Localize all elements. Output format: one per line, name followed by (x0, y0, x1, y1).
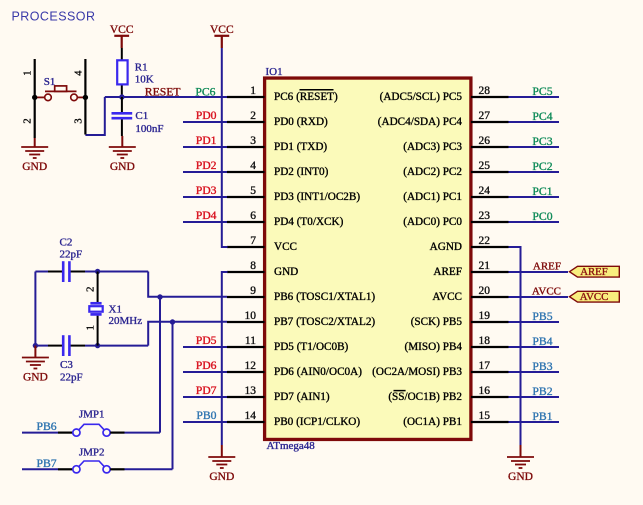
svg-text:PB6 (TOSC1/XTAL1): PB6 (TOSC1/XTAL1) (274, 291, 375, 303)
IC IO1 ATmega48 body (265, 78, 471, 439)
svg-text:3: 3 (73, 118, 84, 123)
net label PB0 (196, 409, 216, 422)
switch S1 pin number 2 (22, 118, 33, 123)
svg-text:1: 1 (22, 70, 33, 75)
IO1 pin 28 (ADC5/SCL) PC5 (380, 85, 509, 103)
capacitor C3 (63, 335, 69, 356)
svg-text:20MHz: 20MHz (109, 315, 143, 327)
wire JMP1 vertical (159, 297, 161, 433)
svg-text:1: 1 (85, 325, 97, 331)
IO1 pin 18 (MISO) PB4 (405, 335, 509, 353)
svg-text:14: 14 (245, 410, 257, 422)
IO1 pin 3 PD1 (TXD) (227, 135, 327, 153)
svg-text:PB6: PB6 (37, 420, 57, 433)
svg-text:PC6: PC6 (195, 86, 215, 99)
ground below C1 (109, 136, 136, 173)
svg-text:(ADC4/SDA) PC4: (ADC4/SDA) PC4 (378, 116, 463, 128)
wire net PC3 (509, 146, 560, 148)
net label AVCC (532, 286, 561, 298)
ground below AGND (507, 445, 534, 483)
svg-text:PC2: PC2 (532, 160, 552, 173)
capacitor C3 label (60, 359, 83, 384)
net label PD2 (196, 159, 217, 172)
crystal X1 pin number 2 (84, 287, 96, 293)
svg-text:(ADC0) PC0: (ADC0) PC0 (403, 216, 462, 228)
svg-text:21: 21 (479, 260, 491, 272)
IO1 pin 7 VCC (227, 235, 297, 253)
net label PB4 (532, 335, 552, 348)
svg-text:PROCESSOR: PROCESSOR (12, 10, 96, 24)
IO1 pin 25 (ADC2) PC2 (403, 160, 508, 178)
svg-text:16: 16 (479, 385, 491, 397)
svg-text:PB7 (TOSC2/XTAL2): PB7 (TOSC2/XTAL2) (274, 316, 375, 328)
power flag terminal AVCC (570, 291, 620, 303)
node junction left rail / ground (33, 343, 38, 348)
wire net AVCC (509, 296, 569, 298)
wire net PB4 (509, 346, 560, 348)
svg-text:GND: GND (23, 372, 48, 384)
node junction R1/C1 on RESET net (119, 94, 124, 99)
net label PB3 (532, 360, 552, 373)
svg-text:C3: C3 (60, 359, 73, 371)
svg-text:12: 12 (245, 360, 257, 372)
net label RESET (145, 86, 181, 99)
svg-text:(ADC1) PC1: (ADC1) PC1 (403, 191, 462, 203)
wire net PD6 (183, 371, 227, 373)
IO1 pin 21 AREF (433, 260, 508, 278)
svg-text:PC1: PC1 (532, 185, 552, 198)
IO1 pin 15 (OC1A) PB1 (403, 410, 508, 428)
IO1 pin 12 PD6 (AIN0/OC0A) (227, 360, 362, 378)
svg-text:AVCC: AVCC (432, 291, 462, 303)
net label PD5 (196, 334, 217, 347)
svg-text:PD3: PD3 (196, 184, 217, 197)
IO1 pin 11 PD5 (T1/OC0B) (227, 335, 349, 353)
node junction pin 9 / JMP1 (157, 294, 162, 299)
svg-text:18: 18 (479, 335, 491, 347)
jumper JMP2 label (79, 447, 105, 459)
svg-text:PC4: PC4 (532, 110, 552, 123)
capacitor C1 label (135, 110, 163, 135)
svg-text:PD7 (AIN1): PD7 (AIN1) (274, 391, 330, 403)
IO1 pin 1 PC6 (RESET) (227, 85, 338, 103)
svg-text:11: 11 (245, 335, 256, 347)
svg-text:GND: GND (22, 161, 47, 173)
IO1 pin 26 (ADC3) PC3 (403, 135, 508, 153)
wire net PD0 (183, 121, 227, 123)
node junction crystal bottom (95, 343, 100, 348)
svg-text:10: 10 (245, 310, 257, 322)
net label PC4 (532, 110, 552, 123)
svg-text:PC6 (RESET): PC6 (RESET) (274, 91, 338, 103)
svg-text:8: 8 (250, 260, 256, 272)
svg-text:PB1: PB1 (532, 410, 552, 423)
svg-text:19: 19 (479, 310, 491, 322)
power flag terminal AREF (570, 266, 620, 278)
jumper JMP2 (73, 461, 110, 473)
svg-text:28: 28 (479, 85, 491, 97)
net label PC0 (532, 210, 552, 223)
resistor R1 label (135, 61, 154, 85)
net label PD4 (196, 209, 217, 222)
svg-text:PB7: PB7 (37, 457, 57, 470)
net label PB7 (37, 457, 57, 470)
svg-text:26: 26 (479, 135, 491, 147)
ground below IO1 (pin 8 net) (208, 445, 235, 483)
net label AREF (533, 261, 561, 273)
IO1 pin 2 PD0 (RXD) (227, 110, 328, 128)
svg-text:PD2 (INT0): PD2 (INT0) (274, 166, 329, 178)
svg-text:17: 17 (479, 360, 491, 372)
IO1 pin 4 PD2 (INT0) (227, 160, 329, 178)
IO1 pin 24 (ADC1) PC1 (403, 185, 508, 203)
wire net PB3 (509, 371, 560, 373)
svg-text:AREF: AREF (433, 266, 462, 278)
IO1 pin 10 PB7 (TOSC2/XTAL2) (227, 310, 375, 328)
svg-text:AVCC: AVCC (532, 286, 561, 298)
svg-text:ATmega48: ATmega48 (267, 440, 316, 452)
svg-text:JMP2: JMP2 (79, 447, 105, 459)
wire net PD3 (183, 196, 227, 198)
svg-text:22pF: 22pF (60, 248, 83, 260)
IO1 pin 8 GND (227, 260, 298, 278)
net label PD1 (196, 134, 217, 147)
wire net PC1 (509, 196, 560, 198)
power terminal VCC (R1) (110, 24, 134, 48)
wire net PD1 (183, 146, 227, 148)
IO1 pin 14 PB0 (ICP1/CLKO) (227, 410, 360, 428)
svg-text:2: 2 (22, 118, 33, 123)
svg-text:25: 25 (479, 160, 491, 172)
svg-text:(SCK) PB5: (SCK) PB5 (411, 316, 463, 328)
wire net PD7 (183, 396, 227, 398)
net label PB2 (532, 385, 552, 398)
IO1 pin 22 AGND (430, 235, 509, 253)
svg-text:2: 2 (84, 287, 96, 293)
svg-text:20: 20 (479, 285, 491, 297)
svg-text:5: 5 (250, 185, 256, 197)
crystal X1 (89, 272, 102, 346)
ground below left rail (22, 346, 49, 384)
svg-text:PD4: PD4 (196, 209, 217, 222)
net label PB5 (532, 310, 552, 323)
svg-text:GND: GND (274, 266, 298, 278)
svg-text:9: 9 (250, 285, 256, 297)
wire net PD5 (183, 346, 227, 348)
wire net PD4 (183, 221, 227, 223)
wire JMP2 left (22, 468, 73, 470)
svg-text:R1: R1 (135, 61, 148, 73)
svg-text:13: 13 (245, 385, 257, 397)
wire JMP2 vertical (172, 322, 174, 469)
svg-text:22: 22 (479, 235, 491, 247)
wire net PB2 (509, 396, 560, 398)
net label PD7 (196, 384, 217, 397)
svg-text:PB0: PB0 (196, 409, 216, 422)
svg-text:PD7: PD7 (196, 384, 217, 397)
net label PC3 (532, 135, 552, 148)
wire net PC0 (509, 221, 560, 223)
power terminal VCC (IO1 pin 7) (210, 24, 234, 48)
svg-text:PB0 (ICP1/CLKO): PB0 (ICP1/CLKO) (274, 416, 360, 428)
svg-text:PD1: PD1 (196, 134, 217, 147)
svg-text:PD0: PD0 (196, 109, 217, 122)
svg-text:VCC: VCC (210, 24, 234, 36)
svg-text:PC3: PC3 (532, 135, 552, 148)
wire net PD2 (183, 171, 227, 173)
IC reference designator IO1 (266, 66, 283, 78)
capacitor C1 (112, 97, 133, 136)
wire net PC5 (509, 96, 560, 98)
svg-text:PB5: PB5 (532, 310, 552, 323)
wire top node to pin 9 (148, 272, 227, 297)
switch S1 contacts and button (35, 86, 86, 101)
svg-text:AREF: AREF (580, 266, 608, 278)
wire AGND (pin 22) to ground (509, 247, 521, 445)
wire net AREF (509, 271, 569, 273)
switch S1 reference label (44, 76, 56, 88)
wire net PC2 (509, 171, 560, 173)
switch S1 pin number 3 (73, 118, 84, 123)
net label PC6 (195, 86, 215, 99)
svg-text:(ADC5/SCL) PC5: (ADC5/SCL) PC5 (380, 91, 463, 103)
wire JMP1 left (22, 432, 73, 434)
svg-text:PD0 (RXD): PD0 (RXD) (274, 116, 328, 128)
net label PD6 (196, 359, 217, 372)
svg-text:10K: 10K (135, 74, 154, 86)
svg-text:PD6: PD6 (196, 359, 217, 372)
svg-text:PC0: PC0 (532, 210, 552, 223)
svg-text:AREF: AREF (533, 261, 561, 273)
wire pin 8 GND vertical (222, 272, 228, 445)
svg-text:X1: X1 (109, 304, 122, 316)
svg-text:(ADC3) PC3: (ADC3) PC3 (403, 141, 462, 153)
svg-text:AGND: AGND (430, 241, 462, 253)
wire net PC4 (509, 121, 560, 123)
wire net PB5 (509, 321, 560, 323)
IO1 pin 17 (OC2A/MOSI) PB3 (372, 360, 508, 378)
svg-text:S1: S1 (44, 76, 56, 88)
net label PB1 (532, 410, 552, 423)
wire JMP1 right (110, 432, 160, 434)
IO1 pin 23 (ADC0) PC0 (403, 210, 508, 228)
wire left ground rail (C2/C3) (34, 272, 36, 346)
svg-text:PB2: PB2 (532, 385, 552, 398)
title PROCESSOR (12, 10, 96, 24)
net label PB6 (37, 420, 57, 433)
net label PD3 (196, 184, 217, 197)
svg-text:RESET: RESET (145, 86, 181, 99)
svg-text:PD5: PD5 (196, 334, 217, 347)
switch S1 pin number 1 (22, 70, 33, 75)
svg-text:VCC: VCC (110, 24, 134, 36)
wire XTAL2 bottom node horizontal (35, 345, 148, 347)
IO1 pin 20 AVCC (432, 285, 508, 303)
net label PC1 (532, 185, 552, 198)
wire XTAL1 top node horizontal (35, 271, 148, 273)
svg-text:PD6 (AIN0/OC0A): PD6 (AIN0/OC0A) (274, 366, 362, 378)
wire RESET to switch S1 pin 3 (85, 97, 104, 135)
svg-text:7: 7 (250, 235, 256, 247)
svg-text:24: 24 (479, 185, 491, 197)
svg-text:C2: C2 (60, 236, 73, 248)
svg-text:1: 1 (250, 85, 256, 97)
IO1 pin 6 PD4 (T0/XCK) (227, 210, 344, 228)
switch S1 pin number 4 (73, 70, 84, 76)
svg-text:PD5 (T1/OC0B): PD5 (T1/OC0B) (274, 341, 349, 353)
svg-text:3: 3 (250, 135, 256, 147)
wire bottom node to pin 10 (148, 322, 227, 346)
IO1 pin 13 PD7 (AIN1) (227, 385, 330, 403)
svg-text:2: 2 (250, 110, 256, 122)
svg-text:VCC: VCC (274, 241, 297, 253)
crystal X1 pin number 1 (85, 325, 97, 331)
svg-text:(OC1A) PB1: (OC1A) PB1 (403, 416, 462, 428)
svg-text:23: 23 (479, 210, 491, 222)
crystal X1 label (109, 304, 143, 328)
IO1 pin 5 PD3 (INT1/OC2B) (227, 185, 360, 203)
resistor R1 (117, 48, 127, 96)
svg-text:4: 4 (73, 70, 84, 76)
jumper JMP1 label (79, 409, 105, 421)
svg-text:22pF: 22pF (60, 372, 83, 384)
IO1 pin 16 (SS/OC1B) PB2 (388, 385, 508, 403)
IO1 pin 19 (SCK) PB5 (411, 310, 509, 328)
svg-text:PB3: PB3 (532, 360, 552, 373)
svg-text:15: 15 (479, 410, 491, 422)
svg-text:(MISO) PB4: (MISO) PB4 (405, 341, 463, 353)
svg-text:27: 27 (479, 110, 491, 122)
svg-text:JMP1: JMP1 (79, 409, 105, 421)
svg-text:GND: GND (110, 161, 135, 173)
svg-text:PD1 (TXD): PD1 (TXD) (274, 141, 327, 153)
svg-text:(OC2A/MOSI) PB3: (OC2A/MOSI) PB3 (372, 366, 462, 378)
IO1 pin 27 (ADC4/SDA) PC4 (378, 110, 509, 128)
svg-text:GND: GND (508, 471, 533, 483)
svg-text:(ADC2) PC2: (ADC2) PC2 (403, 166, 462, 178)
node junction crystal top (95, 269, 100, 274)
net label PD0 (196, 109, 217, 122)
switch S1 junction dots (32, 95, 88, 100)
IO1 pin 9 PB6 (TOSC1/XTAL1) (227, 285, 375, 303)
IC value ATmega48 (267, 440, 316, 452)
wire RESET net horizontal (105, 96, 227, 98)
wire net PB1 (509, 421, 560, 423)
svg-text:PC5: PC5 (532, 85, 552, 98)
svg-text:PB4: PB4 (532, 335, 552, 348)
net label PC2 (532, 160, 552, 173)
svg-text:IO1: IO1 (266, 66, 283, 78)
net label PC5 (532, 85, 552, 98)
svg-text:PD2: PD2 (196, 159, 217, 172)
wire JMP2 right (110, 468, 172, 470)
svg-text:6: 6 (250, 210, 256, 222)
svg-text:100nF: 100nF (135, 123, 163, 135)
capacitor C2 label (60, 236, 83, 260)
node junction pin 10 / JMP2 (170, 319, 175, 324)
capacitor C2 (63, 261, 69, 282)
svg-text:GND: GND (209, 471, 234, 483)
svg-text:AVCC: AVCC (580, 291, 609, 303)
ground below S1 (21, 138, 48, 173)
wire net PB0 (183, 421, 227, 423)
switch S1 pin lines (35, 59, 86, 138)
wire VCC to pin 7 (222, 48, 228, 247)
svg-text:C1: C1 (135, 110, 148, 122)
jumper JMP1 (73, 424, 110, 436)
svg-text:(SS/OC1B) PB2: (SS/OC1B) PB2 (388, 391, 462, 403)
svg-text:4: 4 (250, 160, 256, 172)
svg-text:PD4 (T0/XCK): PD4 (T0/XCK) (274, 216, 344, 228)
svg-text:PD3 (INT1/OC2B): PD3 (INT1/OC2B) (274, 191, 360, 203)
